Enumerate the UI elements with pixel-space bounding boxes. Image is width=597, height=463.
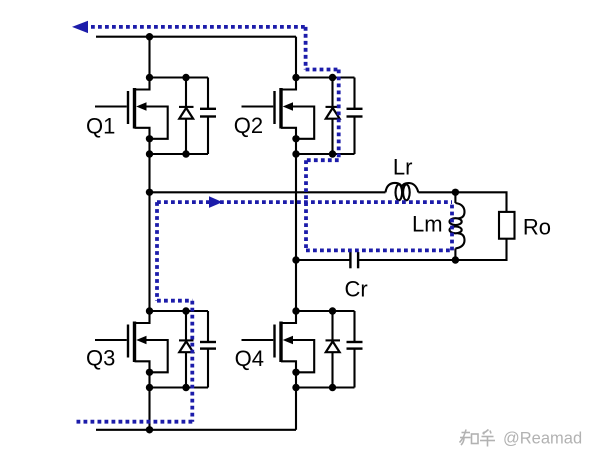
svg-text:Q1: Q1 bbox=[86, 114, 115, 139]
wire: bottom negative rail bbox=[96, 429, 296, 431]
svg-text:Q3: Q3 bbox=[86, 345, 115, 370]
node: Q1 drain bar left bbox=[146, 74, 153, 81]
svg-text:Q2: Q2 bbox=[234, 113, 263, 138]
wire: blue dotted tank bottom run bbox=[306, 248, 452, 252]
node A: left leg midpoint bbox=[146, 189, 153, 196]
wire: Q3 source drop to bottom rail bbox=[148, 388, 150, 430]
wire: left leg mid column Q1 source to Q3 drain bbox=[148, 154, 150, 311]
capacitor: Q3 parallel capacitor bbox=[200, 311, 216, 388]
transistor Q3 bbox=[95, 311, 168, 388]
diode: Q3 body diode bbox=[179, 311, 194, 388]
node: Q3 bottom bar diode bbox=[182, 384, 189, 391]
node: Q2 bottom bar diode bbox=[329, 150, 336, 157]
node: Q2 drain bar left bbox=[292, 74, 299, 81]
svg-text:Q4: Q4 bbox=[235, 346, 264, 371]
node: Q2 source/body junction bbox=[292, 135, 299, 142]
wire: Cr left plate to node B bbox=[296, 259, 350, 261]
watermark: 知乎 @Reamad bbox=[460, 430, 496, 447]
node: top rail / Q1 drain junction bbox=[146, 33, 153, 40]
node: Q3 source/body junction bbox=[146, 369, 153, 376]
wire: Q1 bottom bar bbox=[150, 153, 209, 155]
svg-text:Lm: Lm bbox=[412, 212, 443, 237]
svg-text:@Reamad: @Reamad bbox=[503, 430, 582, 448]
wire: blue dotted jog above Q2 diode bbox=[306, 68, 339, 72]
node: Q2 drain bar diode bbox=[329, 74, 336, 81]
wire: Q2 bottom bar bbox=[296, 153, 355, 155]
diode: Q2 body diode bbox=[326, 78, 341, 155]
resistor Ro bbox=[499, 212, 515, 239]
wire: Lm bottom to Cr right plate bbox=[358, 259, 455, 261]
wire: Q1 top bar bbox=[150, 76, 209, 78]
wire: top rail drop to Q1 drain bar bbox=[148, 37, 150, 78]
node: Lm bottom bbox=[452, 256, 459, 263]
wire: Lr to Ro top corner bbox=[418, 192, 506, 212]
wire: Q3 top bar bbox=[150, 310, 209, 312]
wire: blue dotted bottom return bbox=[75, 420, 193, 424]
wire: Q2 top bar bbox=[296, 76, 355, 78]
node: Q3 drain bar left bbox=[146, 307, 153, 314]
node: Lm top bbox=[452, 189, 459, 196]
capacitor: Q1 parallel capacitor bbox=[200, 78, 216, 155]
wire: blue dotted through Q2 diode column bbox=[337, 70, 341, 161]
diode: Q4 body diode bbox=[326, 311, 341, 388]
wire: top positive rail bbox=[96, 36, 296, 38]
node: bottom rail / Q3 source junction bbox=[146, 426, 153, 433]
node: Q2 bottom bar left bbox=[292, 150, 299, 157]
node: Q1 drain bar diode bbox=[182, 74, 189, 81]
node: Q4 bottom bar left bbox=[292, 384, 299, 391]
arrow: blue current direction, pointing left at top bbox=[72, 21, 88, 33]
svg-text:Cr: Cr bbox=[345, 277, 368, 302]
wire: blue dotted down to tank bottom bbox=[304, 160, 308, 250]
wire: blue dotted down from node A bbox=[155, 202, 159, 301]
svg-text:Lr: Lr bbox=[393, 155, 413, 180]
transistor Q1 bbox=[95, 78, 168, 155]
svg-text:Ro: Ro bbox=[523, 214, 551, 239]
arrow: blue current direction, pointing right on tank top bbox=[209, 196, 223, 208]
wire: blue dotted through Q3 diode column bbox=[190, 301, 194, 422]
capacitor Cr bbox=[350, 252, 358, 268]
capacitor: Q4 parallel capacitor bbox=[347, 311, 363, 388]
wire: Q3 bottom bar bbox=[150, 386, 209, 388]
node: Q4 drain bar diode bbox=[329, 307, 336, 314]
wire: Ro bottom lead bbox=[455, 239, 506, 260]
node: Q1 bottom bar left bbox=[146, 150, 153, 157]
node: Q3 bottom bar left bbox=[146, 384, 153, 391]
wire: blue dotted tank top run bbox=[157, 200, 452, 204]
node: Q4 source/body junction bbox=[292, 369, 299, 376]
wire: Q4 bottom bar bbox=[296, 386, 355, 388]
transistor Q2 bbox=[242, 78, 315, 155]
wire: blue dotted jog below Q2 bbox=[306, 158, 339, 162]
node: Q4 drain bar left bbox=[292, 307, 299, 314]
inductor Lm bbox=[450, 192, 465, 260]
wire: blue dotted current path, top return line bbox=[84, 25, 306, 29]
wire: Q4 top bar bbox=[296, 310, 355, 312]
transistor Q4 bbox=[242, 311, 315, 388]
wire: blue dotted up through Lm branch bbox=[450, 202, 454, 250]
capacitor: Q2 parallel capacitor bbox=[347, 78, 363, 155]
node: Q3 drain bar diode bbox=[182, 307, 189, 314]
wire: top rail drop to Q2 drain bar bbox=[295, 37, 297, 78]
node: Q4 bottom bar diode bbox=[329, 384, 336, 391]
wire: node A to Lr bbox=[150, 191, 386, 193]
node: Q1 source/body junction bbox=[146, 135, 153, 142]
node: Q1 bottom bar diode bbox=[182, 150, 189, 157]
node B: right leg midpoint bbox=[292, 256, 299, 263]
wire: right leg mid column Q2 source to Q4 drain bbox=[295, 154, 297, 311]
wire: blue dotted jog above Q3 diode bbox=[157, 299, 192, 303]
wire: blue dotted drop beside Q2 drain bbox=[304, 27, 308, 70]
diode: Q1 body diode bbox=[179, 78, 194, 155]
wire: Q4 source drop to bottom rail bbox=[295, 388, 297, 430]
inductor Lr bbox=[386, 183, 419, 200]
